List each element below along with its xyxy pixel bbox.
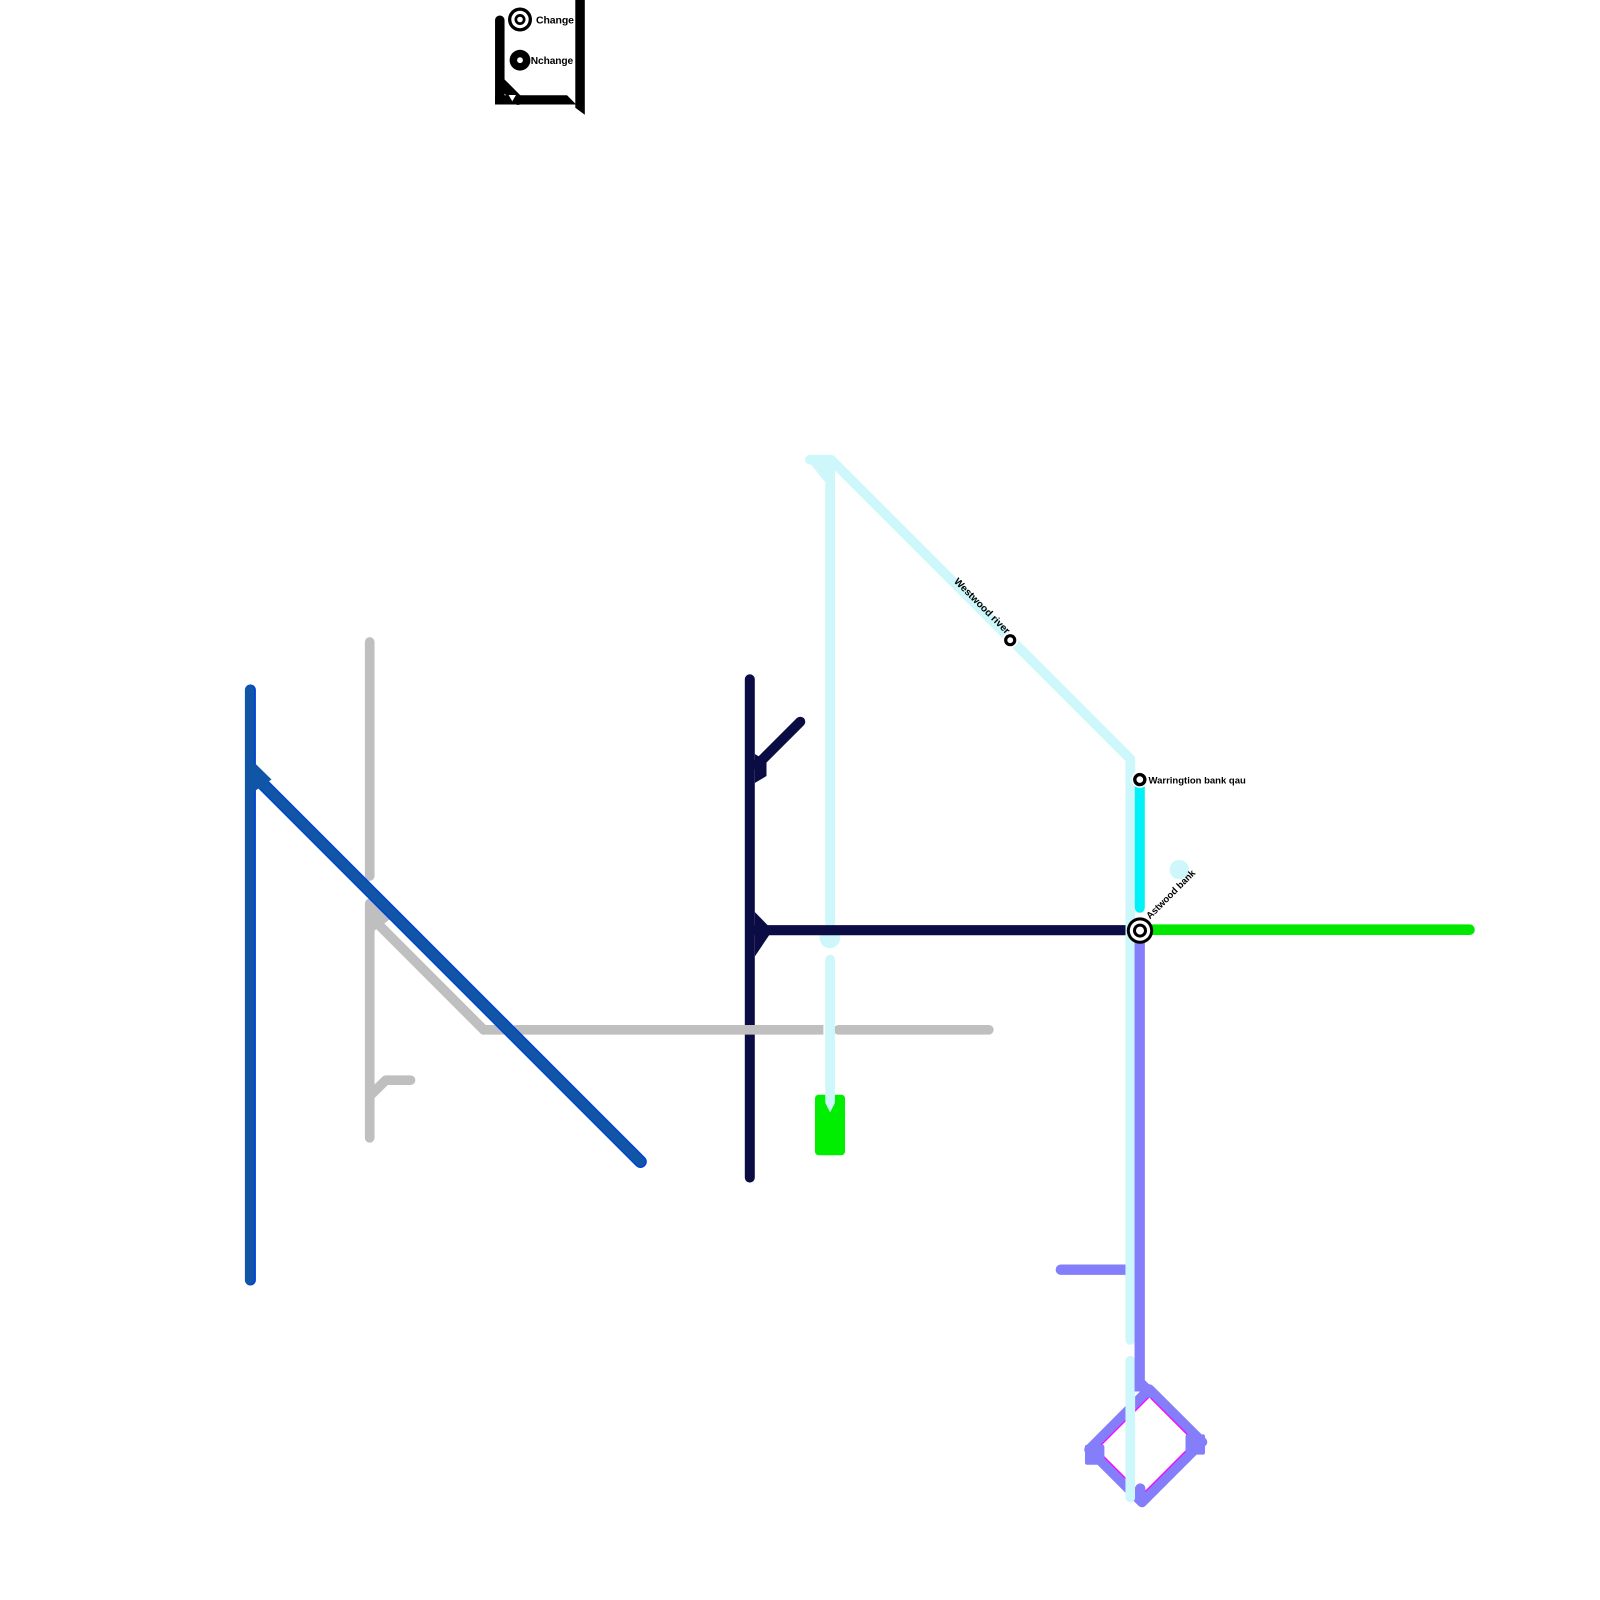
gray diagonal xyxy=(373,919,484,1030)
svg-text:Nchange: Nchange xyxy=(531,56,574,67)
blue line diagonal xyxy=(252,773,641,1161)
gray horizontal bend piece xyxy=(484,1025,504,1035)
green terminus box xyxy=(815,1095,845,1155)
pale cyan top wedge xyxy=(805,457,834,482)
interchange Astwood bank xyxy=(1127,917,1153,943)
station Westwood river xyxy=(1002,632,1018,648)
pale cyan line 1 arrow tip xyxy=(825,1103,835,1112)
purple fan at diamond top xyxy=(1140,1383,1151,1394)
purple left vertex block xyxy=(1085,1445,1104,1465)
pale cyan line 2 lower xyxy=(1125,1361,1135,1498)
magenta diamond underlay xyxy=(1091,1391,1201,1501)
navy branch diagonal xyxy=(757,722,800,765)
gray line vertical upper xyxy=(365,642,375,876)
pale cyan dot near Astwood bank xyxy=(1170,860,1189,879)
legend nchange icon xyxy=(510,50,531,71)
purple vertical xyxy=(1135,941,1145,1391)
svg-text:Warringtion bank qau: Warringtion bank qau xyxy=(1149,776,1246,787)
bright cyan segment xyxy=(1135,781,1145,908)
legend change icon xyxy=(508,8,532,32)
gray line vertical lower xyxy=(365,904,375,1138)
legend frame right bar xyxy=(575,0,585,115)
navy vertical xyxy=(745,679,755,1177)
gray junction wedge xyxy=(375,902,392,931)
blue junction wedge xyxy=(254,763,271,792)
navy horizontal xyxy=(750,925,1126,935)
blue line vertical xyxy=(245,690,254,1280)
purple bottom stub xyxy=(1135,1489,1145,1498)
station Warringtion bank qau xyxy=(1132,771,1149,788)
pale cyan station dot xyxy=(820,928,841,949)
blue line fringe diagonal xyxy=(252,773,641,1161)
navy branch wedge xyxy=(755,754,767,783)
legend frame left bar xyxy=(495,20,505,99)
gray stub branch xyxy=(370,1080,411,1096)
pale cyan line 2 (diagonal + vertical) xyxy=(831,460,1130,1340)
purple right vertex block xyxy=(1186,1434,1206,1454)
purple stub xyxy=(1061,1265,1127,1275)
legend notch white xyxy=(509,95,516,101)
gray horizontal right piece xyxy=(839,1025,989,1035)
legend frame bottom bar xyxy=(495,95,576,104)
blue vertical fringe xyxy=(245,690,256,1280)
pale cyan line 1 lower xyxy=(825,960,835,1102)
purple diamond xyxy=(1089,1389,1203,1503)
legend frame inner diagonal xyxy=(501,83,519,101)
green line xyxy=(1140,924,1470,935)
pale cyan line 1 upper xyxy=(810,460,830,926)
svg-text:Change: Change xyxy=(536,14,574,26)
navy horizontal wedge xyxy=(755,912,773,957)
gray horizontal main xyxy=(516,1025,823,1035)
